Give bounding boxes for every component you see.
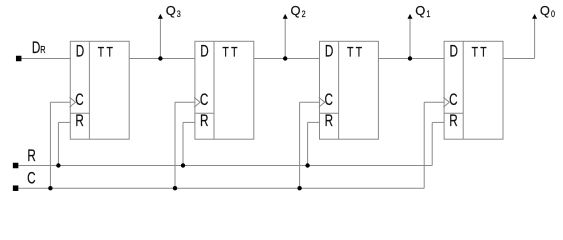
svg-text:Q: Q (291, 3, 301, 18)
svg-text:T: T (480, 44, 487, 60)
svg-text:T: T (107, 44, 114, 60)
svg-text:T: T (98, 44, 105, 60)
svg-text:D: D (76, 42, 84, 60)
svg-text:T: T (472, 44, 479, 60)
svg-text:D: D (450, 42, 458, 60)
svg-text:C: C (27, 170, 35, 188)
svg-text:T: T (222, 44, 229, 60)
svg-text:2: 2 (302, 9, 306, 19)
svg-text:Q: Q (540, 3, 550, 18)
svg-text:R: R (75, 112, 83, 130)
svg-text:Q: Q (415, 3, 425, 18)
svg-text:T: T (347, 44, 354, 60)
svg-text:R: R (40, 44, 46, 56)
svg-text:0: 0 (551, 9, 555, 19)
svg-text:C: C (325, 91, 333, 109)
svg-text:R: R (449, 112, 457, 130)
svg-text:R: R (200, 112, 208, 130)
svg-text:Q: Q (166, 3, 176, 18)
svg-text:C: C (200, 91, 208, 109)
svg-text:D: D (32, 39, 40, 57)
svg-text:D: D (325, 42, 333, 60)
svg-text:3: 3 (177, 9, 181, 19)
svg-text:C: C (75, 91, 83, 109)
svg-text:D: D (200, 42, 208, 60)
svg-text:R: R (27, 147, 35, 165)
svg-text:T: T (356, 44, 363, 60)
svg-text:R: R (325, 112, 333, 130)
svg-text:C: C (449, 91, 457, 109)
svg-text:T: T (231, 44, 238, 60)
svg-text:1: 1 (426, 9, 430, 19)
